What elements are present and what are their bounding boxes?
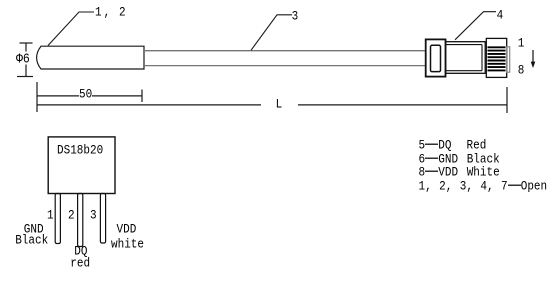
dimension line L (right part) — [298, 104, 507, 106]
wire (cable upper line) — [144, 50, 425, 52]
pin1 name GND — [24, 224, 44, 237]
pin number 2 — [68, 210, 75, 223]
wire (cable lower line) — [144, 65, 425, 67]
RJ plug contact block — [486, 38, 506, 77]
RJ plug boot inner window — [431, 45, 441, 71]
DS18b20 pin 3 leg — [100, 194, 105, 244]
RJ plug body inner top line — [446, 44, 482, 46]
extension line left (shared by 50 and L dims) — [36, 82, 38, 112]
pin 8 marker near plug — [518, 65, 525, 78]
pin1 wire color Black — [15, 235, 48, 248]
pin3 wire color white — [111, 239, 144, 252]
RJ plug boot block — [426, 39, 446, 76]
pin 1 marker near plug — [518, 38, 525, 51]
plug pinout line 5 — [419, 140, 487, 153]
label 1,2 (probe callout) — [95, 7, 126, 20]
leader line for label 3 — [251, 15, 292, 51]
pin number 3 — [90, 210, 97, 223]
dimension Phi6 vertical line — [25, 43, 27, 52]
dimension text L — [276, 99, 283, 112]
RJ plug front tip tab — [507, 47, 510, 72]
dimension L right tick — [506, 87, 508, 113]
plug pinout open pins — [419, 181, 548, 194]
plug pinout line 8 — [419, 167, 500, 180]
dimension Phi6 bottom tick — [17, 76, 33, 78]
dimension line 50 (left part) — [37, 95, 79, 97]
probe body (stainless tube) — [37, 46, 144, 69]
DS18b20 pin 2 leg — [78, 194, 83, 247]
RJ plug contacts (8 pins stripes) — [488, 47, 506, 70]
pin order arrow (1 to 8) — [532, 50, 534, 64]
diameter label Phi6 — [16, 53, 30, 66]
DS18b20 package body — [48, 137, 115, 194]
DS18b20 part label — [57, 145, 103, 158]
pin2 name DQ — [74, 246, 87, 259]
plug pinout line 6 — [419, 154, 500, 167]
leader line for label 1,2 — [48, 12, 94, 46]
pin3 name VDD — [117, 224, 137, 237]
label 3 (cable callout) — [292, 11, 299, 24]
dimension line 50 (right part) — [92, 95, 142, 97]
RJ plug body inner right line — [481, 45, 483, 71]
pin number 1 — [47, 210, 54, 223]
dimension line L (left part) — [37, 104, 261, 106]
dimension text 50 — [79, 89, 92, 102]
RJ plug body inner bottom line — [446, 70, 482, 72]
label 4 (plug callout) — [497, 10, 504, 23]
leader line for label 4 — [455, 12, 496, 40]
dimension 50 right tick — [141, 90, 143, 103]
dimension Phi6 top tick — [20, 42, 33, 44]
pin2 wire color red — [70, 258, 90, 271]
DS18b20 pin 1 leg — [55, 194, 60, 244]
RJ plug main body — [446, 42, 486, 74]
